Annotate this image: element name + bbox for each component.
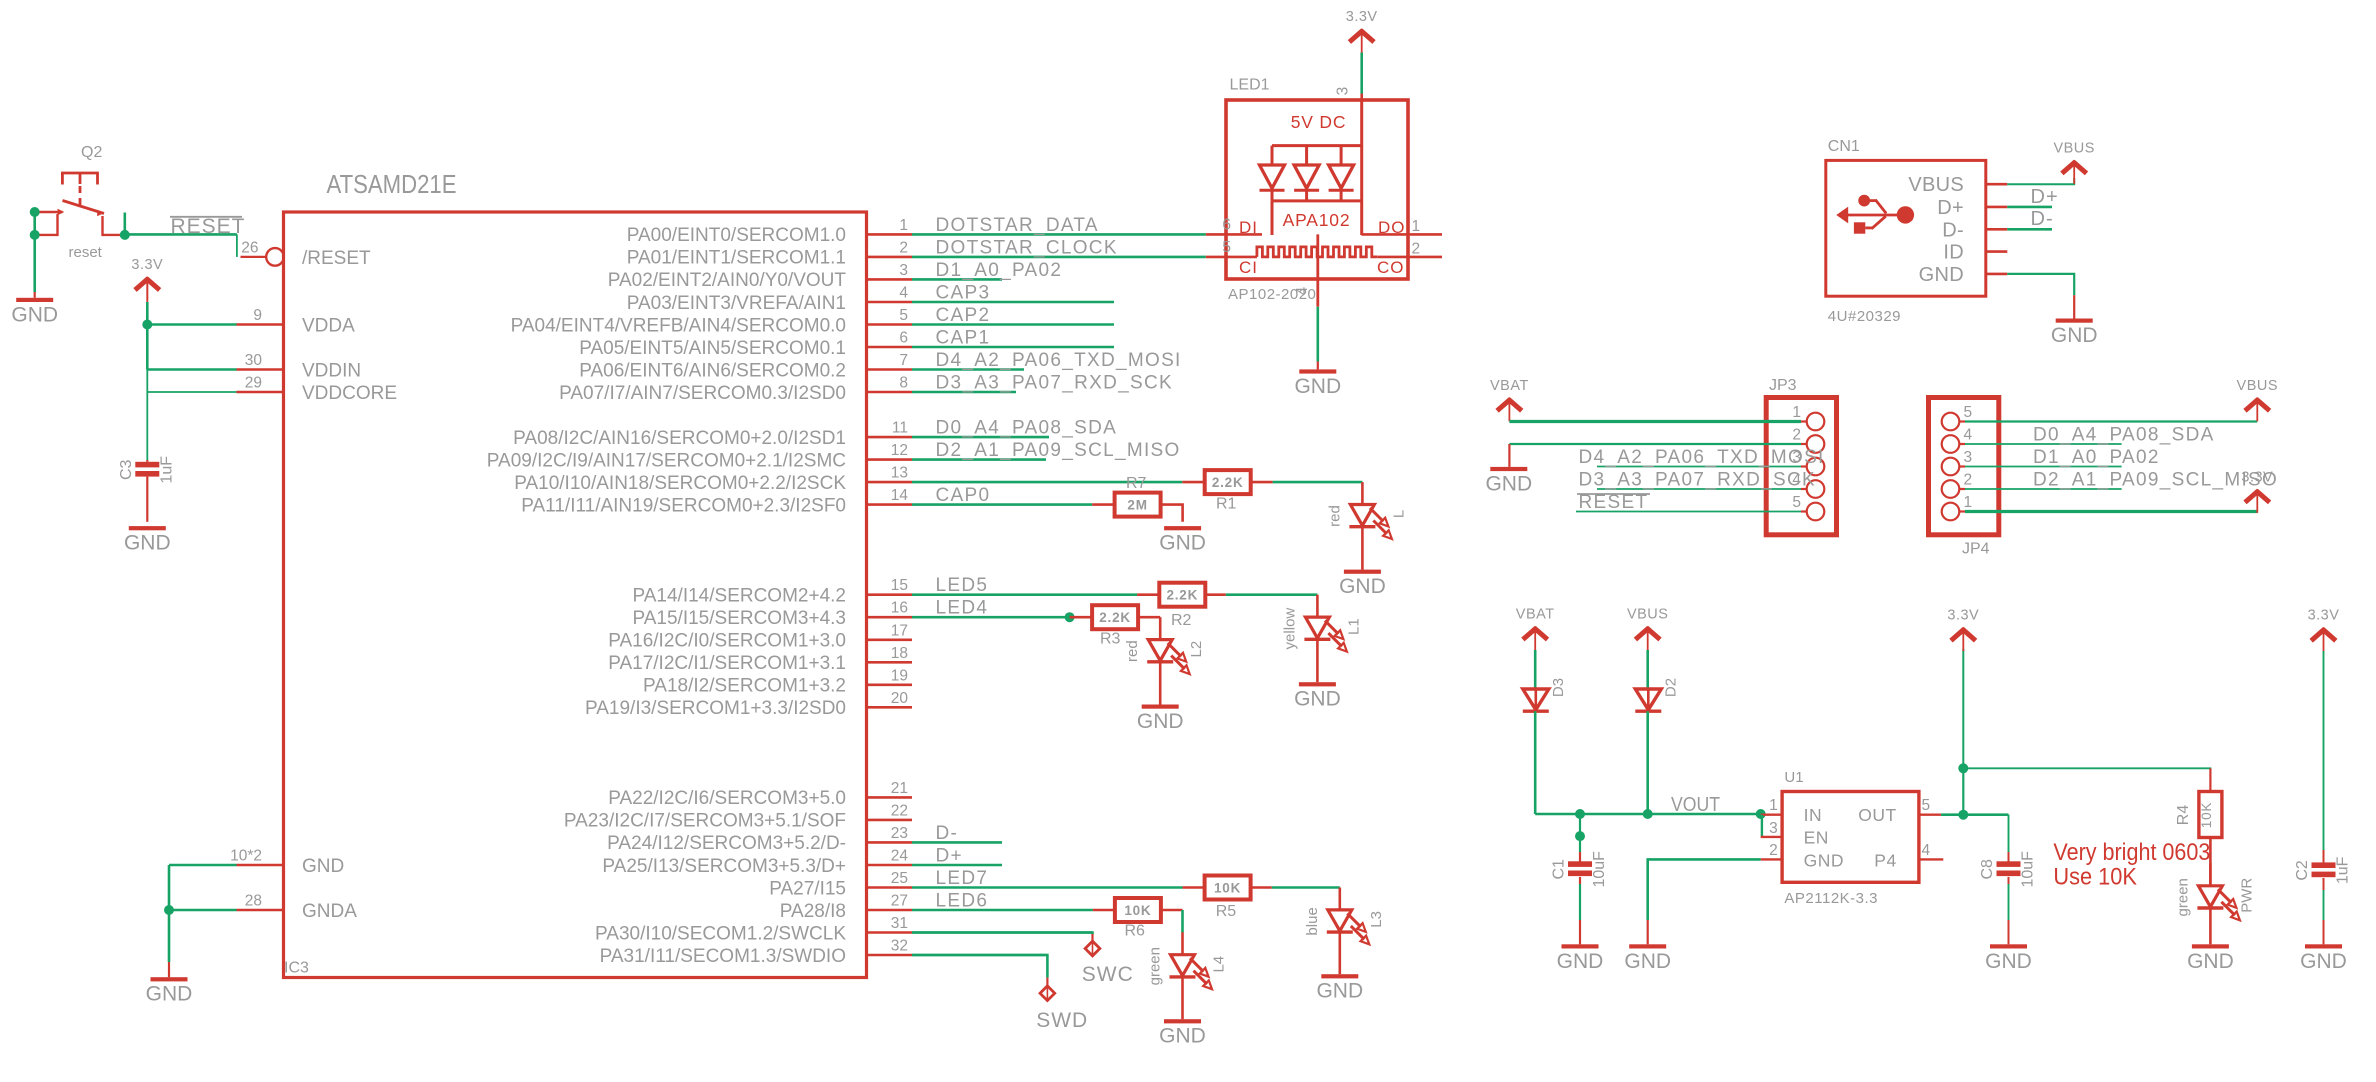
svg-text:10*2: 10*2	[230, 848, 262, 865]
svg-text:D0_A4_PA08_SDA: D0_A4_PA08_SDA	[2033, 425, 2215, 446]
junction dot C1	[1575, 831, 1585, 841]
wire VBUS to D2	[1646, 650, 1649, 689]
svg-text:D1_A0_PA02: D1_A0_PA02	[936, 260, 1063, 281]
wire IC3 GND pin	[169, 864, 237, 867]
svg-text:Use 10K: Use 10K	[2053, 864, 2137, 891]
svg-text:LED5: LED5	[936, 575, 989, 596]
svg-text:GND: GND	[1804, 850, 1844, 870]
svg-text:21: 21	[891, 780, 908, 797]
svg-text:red: red	[1124, 640, 1141, 662]
svg-text:GND: GND	[1624, 950, 1671, 973]
svg-text:CAP0: CAP0	[936, 485, 991, 506]
svg-text:VBAT: VBAT	[1490, 378, 1529, 394]
svg-text:C1: C1	[1551, 859, 1568, 880]
ground GND under PWR	[2187, 944, 2234, 973]
IC3 pin 25 (PA27/I15)	[769, 868, 1182, 899]
testpoint SWD diamond	[1040, 986, 1055, 1001]
resistor R5 10K	[1205, 876, 1251, 900]
svg-text:D0_A4_PA08_SDA: D0_A4_PA08_SDA	[936, 418, 1118, 439]
svg-text:GND: GND	[1159, 1025, 1206, 1048]
svg-text:6: 6	[899, 330, 908, 347]
IC3 pin 17 (PA16/I2C/I0/SERCOM1+3.0)	[608, 622, 912, 651]
LED L4 green	[1147, 932, 1228, 1019]
svg-text:19: 19	[891, 667, 908, 684]
IC3 pin 3 (PA02/EINT2/AIN0/Y0/VOUT)	[608, 260, 1063, 291]
svg-text:3.3V: 3.3V	[2241, 469, 2273, 485]
svg-text:1: 1	[1964, 494, 1973, 511]
wire 3.3V to LED1 pin3	[1360, 53, 1363, 94]
resistor R3 2.2K	[1092, 605, 1138, 629]
wire SWC	[912, 933, 1093, 935]
svg-text:PA22/I2C/I6/SERCOM3+5.0: PA22/I2C/I6/SERCOM3+5.0	[608, 788, 846, 809]
ground GND under LED L2	[1137, 705, 1184, 734]
svg-text:20: 20	[891, 690, 909, 707]
wire CN1 GND	[2007, 274, 2074, 295]
LED1 pin3 inner vertical	[1360, 100, 1363, 235]
svg-text:2M: 2M	[1127, 498, 1147, 513]
svg-text:11: 11	[892, 420, 908, 437]
LED1 internal diodes	[1260, 146, 1354, 201]
JP3 box	[1766, 398, 1836, 535]
wire JP3 pin4	[1597, 488, 1801, 490]
svg-text:GND: GND	[1316, 980, 1363, 1003]
wire JP4 pin4	[1965, 443, 2122, 445]
U1 pin4 stub	[1919, 858, 1943, 860]
wire R4 to PWR LED	[2209, 838, 2212, 886]
svg-text:P4: P4	[1874, 850, 1896, 870]
svg-text:green: green	[2174, 878, 2191, 916]
svg-text:CO: CO	[1377, 258, 1405, 277]
svg-text:VBUS: VBUS	[1627, 607, 1669, 623]
svg-text:yellow: yellow	[1281, 608, 1298, 650]
ground GND under C8	[1985, 944, 2032, 973]
junction dot Q2 right	[120, 230, 130, 240]
CN1 USB icon	[1836, 195, 1914, 234]
svg-text:1: 1	[1769, 797, 1778, 814]
svg-text:1: 1	[1792, 404, 1801, 421]
svg-text:1: 1	[899, 217, 908, 234]
IC3 pin 15 (PA14/I14/SERCOM2+4.2)	[632, 575, 1137, 606]
svg-text:13: 13	[891, 465, 908, 482]
JP4 box	[1929, 398, 1999, 535]
LED PWR green	[2174, 863, 2255, 944]
svg-text:PA14/I14/SERCOM2+4.2: PA14/I14/SERCOM2+4.2	[632, 586, 846, 607]
svg-text:DO: DO	[1378, 218, 1406, 237]
net label RESET at JP3	[1577, 492, 1650, 513]
svg-text:10uF: 10uF	[1591, 851, 1608, 888]
svg-text:12: 12	[891, 442, 908, 459]
svg-text:CI: CI	[1239, 258, 1258, 277]
svg-text:R3: R3	[1100, 631, 1121, 648]
svg-text:D4_A2_PA06_TXD_MOSI: D4_A2_PA06_TXD_MOSI	[1579, 447, 1825, 468]
svg-text:2.2K: 2.2K	[1166, 588, 1198, 603]
svg-text:VDDCORE: VDDCORE	[302, 383, 397, 404]
IC3 pin 24 (PA25/I13/SERCOM3+5.3/D+)	[602, 846, 1002, 877]
IC3 pin 4 (PA03/EINT3/VREFA/AIN1)	[627, 283, 1114, 314]
IC3 pin 13 (PA10/I10/AIN18/SERCOM0+2.2/I2SCK)	[514, 465, 1182, 494]
svg-text:25: 25	[891, 870, 908, 887]
wire R6 bend down	[1181, 910, 1184, 933]
LED L3 blue	[1304, 888, 1385, 975]
svg-text:LED4: LED4	[936, 598, 989, 619]
switch Q2 left contact	[35, 209, 65, 216]
LED1 box	[1226, 100, 1408, 279]
svg-text:5V DC: 5V DC	[1291, 112, 1347, 132]
svg-text:3: 3	[899, 262, 908, 279]
power 3.3V arrow above U1	[1947, 608, 1979, 652]
wire Q2 to GND	[33, 235, 36, 292]
svg-text:RESET: RESET	[171, 215, 246, 238]
svg-text:10K: 10K	[2199, 802, 2214, 828]
svg-text:PA24/I12/SERCOM3+5.2/D-: PA24/I12/SERCOM3+5.2/D-	[607, 833, 846, 854]
power VBUS arrow above CN1	[2053, 140, 2095, 184]
wire JP4 pin3	[1965, 466, 2122, 468]
wire JP4 pin1 3.3V	[1965, 510, 2257, 513]
wire U1 GND	[1648, 859, 1761, 920]
svg-text:L2: L2	[1188, 641, 1205, 658]
svg-text:red: red	[1326, 505, 1343, 527]
svg-text:GND: GND	[1919, 264, 1964, 286]
ground GND under LED1	[1294, 369, 1341, 398]
svg-text:PA03/EINT3/VREFA/AIN1: PA03/EINT3/VREFA/AIN1	[627, 293, 846, 314]
svg-text:DOTSTAR_CLOCK: DOTSTAR_CLOCK	[936, 237, 1118, 258]
svg-text:4U#20329: 4U#20329	[1828, 308, 1901, 325]
IC3 pin 29 VDDCORE	[237, 375, 398, 405]
svg-text:D1_A0_PA02: D1_A0_PA02	[2033, 447, 2160, 468]
IC3 pin 12 (PA09/I2C/I9/AIN17/SERCOM0+2.1/I2SMC)	[487, 440, 1181, 471]
wire LED1 pin4 to GND	[1317, 307, 1320, 362]
svg-text:29: 29	[245, 375, 262, 392]
switch Q2 right contact	[97, 210, 125, 235]
IC3 pin 23 (PA24/I12/SERCOM3+5.2/D-)	[607, 823, 1002, 854]
wire JP3 pin3	[1597, 466, 1801, 468]
ground GND under C1	[1557, 944, 1604, 973]
svg-text:PA08/I2C/AIN16/SERCOM0+2.0/I2S: PA08/I2C/AIN16/SERCOM0+2.0/I2SD1	[513, 428, 846, 449]
svg-text:CAP1: CAP1	[936, 328, 991, 349]
IC3 pin 31 (PA30/I10/SECOM1.2/SWCLK)	[595, 915, 1092, 944]
svg-text:EN: EN	[1804, 828, 1829, 848]
svg-text:2: 2	[1792, 427, 1801, 444]
svg-text:D2: D2	[1662, 678, 1679, 697]
resistor R2 2.2K	[1159, 583, 1205, 607]
svg-text:C8: C8	[1979, 859, 1996, 880]
svg-text:5: 5	[1964, 404, 1973, 421]
diode D2	[1635, 678, 1679, 711]
svg-text:15: 15	[891, 577, 908, 594]
svg-text:PA02/EINT2/AIN0/Y0/VOUT: PA02/EINT2/AIN0/Y0/VOUT	[608, 270, 847, 291]
IC3 pin 22 (PA23/I2C/I7/SERCOM3+5.1/SOF)	[564, 802, 912, 831]
svg-text:1uF: 1uF	[2335, 856, 2352, 884]
svg-text:3.3V: 3.3V	[131, 257, 163, 273]
svg-text:OUT: OUT	[1858, 805, 1896, 825]
wire JP4 pin5 VBUS	[1965, 420, 2257, 422]
svg-text:/RESET: /RESET	[302, 248, 371, 269]
CN1 ID stub	[1986, 250, 2008, 253]
svg-text:3: 3	[1964, 449, 1973, 466]
junction dot GNDA	[164, 905, 174, 915]
resistor R6 10K	[1115, 898, 1161, 922]
svg-text:D3_A3_PA07_RXD_SCK: D3_A3_PA07_RXD_SCK	[1579, 470, 1816, 491]
ground GND under C2	[2300, 944, 2347, 973]
svg-text:10K: 10K	[1124, 903, 1151, 918]
wire Q2 right vertical	[124, 213, 127, 235]
svg-text:ATSAMD21E: ATSAMD21E	[327, 169, 457, 199]
svg-text:ID: ID	[1943, 242, 1964, 264]
svg-text:PA18/I2/SERCOM1+3.2: PA18/I2/SERCOM1+3.2	[643, 676, 846, 697]
svg-text:PA09/I2C/I9/AIN17/SERCOM0+2.1/: PA09/I2C/I9/AIN17/SERCOM0+2.1/I2SMC	[487, 450, 846, 471]
U1 pin labels	[1804, 805, 1897, 870]
power VBUS arrow bottom	[1627, 607, 1669, 651]
wire R1 to LED L	[1273, 481, 1363, 484]
svg-text:D+: D+	[1937, 197, 1964, 219]
IC3 pin 6 (PA05/EINT5/AIN5/SERCOM0.1)	[579, 328, 1114, 359]
switch Q2 dashed stem	[79, 186, 82, 206]
IC3 pin 28 GNDA	[237, 893, 358, 923]
CN1 box	[1826, 160, 1986, 296]
svg-text:C2: C2	[2294, 860, 2311, 881]
svg-text:PA17/I2C/I1/SERCOM1+3.1: PA17/I2C/I1/SERCOM1+3.1	[608, 653, 846, 674]
wire JP3 pin5	[1576, 511, 1801, 513]
switch Q2 cap bracket	[62, 173, 97, 185]
IC3 pin 32 (PA31/I11/SECOM1.3/SWDIO)	[600, 938, 1048, 967]
wire R7 to GND	[1161, 505, 1183, 522]
svg-text:GND: GND	[1557, 950, 1604, 973]
U1 pin3 hook	[1761, 815, 1763, 837]
svg-text:GND: GND	[2300, 950, 2347, 973]
svg-text:1: 1	[1412, 218, 1421, 235]
svg-text:GND: GND	[1339, 575, 1386, 598]
svg-text:D-: D-	[1942, 219, 1964, 241]
IC3 pin 16 (PA15/I15/SERCOM3+4.3)	[632, 598, 1069, 629]
wire OUT up to 3.3V	[1962, 768, 1964, 814]
svg-text:27: 27	[891, 893, 908, 910]
wire VDDIN	[147, 368, 236, 371]
svg-text:DOTSTAR_DATA: DOTSTAR_DATA	[936, 215, 1099, 236]
svg-text:APA102: APA102	[1283, 210, 1351, 230]
svg-text:U1: U1	[1784, 769, 1803, 786]
power VBAT arrow at JP3	[1490, 378, 1529, 422]
svg-text:10K: 10K	[1214, 881, 1241, 896]
svg-text:3.3V: 3.3V	[2308, 608, 2340, 624]
LED1 DI pin line	[1206, 233, 1262, 236]
wire JP4 pin2	[1965, 488, 2122, 490]
U1 pin numbers	[1769, 797, 1930, 859]
IC3 pin 10*2 GND	[230, 848, 344, 878]
svg-text:green: green	[1147, 947, 1164, 985]
IC3 pin 2 (PA01/EINT1/SERCOM1.1)	[627, 237, 1206, 268]
svg-text:2: 2	[1769, 842, 1778, 859]
svg-text:2.2K: 2.2K	[1212, 475, 1244, 490]
ground GND under Q2	[11, 298, 58, 327]
wire R5 to LED L3	[1272, 886, 1340, 889]
svg-text:D3: D3	[1550, 678, 1567, 697]
ground GND under R7	[1159, 526, 1206, 555]
svg-text:7: 7	[899, 352, 908, 369]
regulator U1 box	[1782, 792, 1919, 883]
svg-text:GNDA: GNDA	[302, 901, 357, 922]
wire OUT to C8	[2008, 815, 2010, 852]
wire VDDA	[147, 323, 236, 326]
svg-text:IN: IN	[1804, 805, 1823, 825]
svg-text:AP2112K-3.3: AP2112K-3.3	[1784, 890, 1878, 907]
junction dot OUT	[1958, 810, 1968, 820]
power VBAT arrow bottom	[1516, 607, 1555, 651]
IC3 pin 20 (PA19/I3/SERCOM1+3.3/I2SD0)	[585, 690, 912, 719]
svg-text:R4: R4	[2175, 805, 2192, 826]
svg-text:L4: L4	[1211, 956, 1228, 973]
wire Q2 left pins	[33, 212, 36, 235]
IC3 pin 14 (PA11/I11/AIN19/SERCOM0+2.3/I2SF0)	[521, 485, 1092, 516]
IC3 pin 9 VDDA	[237, 307, 356, 337]
ground GND under C3	[124, 526, 171, 555]
resistor R4 10K vertical	[2199, 792, 2222, 838]
svg-text:14: 14	[891, 487, 909, 504]
svg-text:10uF: 10uF	[2020, 851, 2037, 888]
svg-text:LED1: LED1	[1230, 77, 1270, 94]
power 3.3V arrow left	[131, 257, 163, 301]
junction dot VDDA	[142, 320, 152, 330]
wire U1 OUT	[1941, 813, 2008, 816]
svg-text:R2: R2	[1171, 612, 1192, 629]
IC3 pin 8 (PA07/I7/AIN7/SERCOM0.3/I2SD0)	[559, 373, 1173, 404]
LED1 inner box sides	[1271, 201, 1274, 235]
svg-text:PA04/EINT4/VREFB/AIN4/SERCOM0.: PA04/EINT4/VREFB/AIN4/SERCOM0.0	[511, 315, 846, 336]
svg-text:6: 6	[1222, 217, 1231, 234]
svg-text:VBUS: VBUS	[2237, 378, 2279, 394]
svg-text:CAP2: CAP2	[936, 305, 991, 326]
wire C1 to GND	[1579, 877, 1581, 884]
wire D3 to rail	[1534, 711, 1537, 814]
svg-text:D+: D+	[2031, 186, 2059, 208]
ground GND under LED L3	[1316, 974, 1363, 1003]
svg-text:5: 5	[1792, 494, 1801, 511]
svg-text:GND: GND	[11, 303, 58, 326]
svg-text:30: 30	[245, 352, 263, 369]
switch Q2 arm	[63, 201, 105, 214]
LED L red	[1326, 482, 1407, 569]
svg-text:VBUS: VBUS	[1908, 174, 1964, 196]
svg-text:PA23/I2C/I7/SERCOM3+5.1/SOF: PA23/I2C/I7/SERCOM3+5.1/SOF	[564, 811, 846, 832]
svg-text:VBAT: VBAT	[1516, 607, 1555, 623]
svg-text:16: 16	[891, 600, 908, 617]
svg-text:GND: GND	[1485, 472, 1532, 495]
JP3 pins	[1792, 404, 1824, 520]
svg-text:LED6: LED6	[936, 891, 989, 912]
U1 pin2 stub	[1761, 858, 1782, 860]
svg-text:D4_A2_PA06_TXD_MOSI: D4_A2_PA06_TXD_MOSI	[936, 350, 1182, 371]
CN1 D- stub	[1986, 228, 2008, 231]
svg-text:18: 18	[891, 645, 908, 662]
svg-text:5: 5	[1922, 797, 1931, 814]
CN1 VBUS stub	[1986, 183, 2008, 186]
svg-text:VDDA: VDDA	[302, 316, 355, 337]
net label RESET with overline	[170, 215, 246, 238]
svg-text:blue: blue	[1304, 907, 1321, 935]
wire C2 to GND	[2323, 878, 2325, 890]
svg-text:AP102-2020: AP102-2020	[1228, 286, 1316, 303]
wire C8 to GND	[2008, 877, 2010, 884]
svg-text:5: 5	[899, 307, 908, 324]
power 3.3V arrow right	[2308, 608, 2340, 652]
LED1 anode rail	[1272, 144, 1362, 147]
IC3 pin 5 (PA04/EINT4/VREFB/AIN4/SERCOM0.0)	[511, 305, 1114, 336]
svg-text:C3: C3	[118, 459, 135, 480]
ground GND under LED L4	[1159, 1019, 1206, 1047]
svg-text:IC3: IC3	[284, 960, 309, 977]
wire R3 bend to LED L2	[1138, 616, 1160, 619]
LED1 clock squarewave	[1257, 247, 1377, 257]
svg-text:3: 3	[1769, 820, 1778, 837]
svg-text:PA27/I15: PA27/I15	[769, 878, 846, 899]
svg-text:L1: L1	[1345, 618, 1362, 635]
IC3 pin 27 (PA28/I8)	[780, 891, 1093, 922]
svg-text:1uF: 1uF	[158, 456, 175, 484]
svg-text:2: 2	[899, 239, 908, 256]
capacitor C2 1uF	[2312, 862, 2336, 868]
U1 pin5 stub	[1919, 814, 1941, 816]
LED1 CI pin line	[1206, 256, 1257, 259]
svg-text:PA15/I15/SERCOM3+4.3: PA15/I15/SERCOM3+4.3	[632, 608, 846, 629]
ground GND under LED L1	[1294, 682, 1341, 711]
svg-text:GND: GND	[1137, 710, 1184, 733]
power 3.3V arrow above LED1	[1346, 9, 1378, 53]
svg-text:D3_A3_PA07_RXD_SCK: D3_A3_PA07_RXD_SCK	[936, 373, 1173, 394]
wire 3.3V to C2	[2323, 651, 2325, 850]
svg-text:PA28/I8: PA28/I8	[780, 901, 846, 922]
svg-text:PA07/I7/AIN7/SERCOM0.3/I2SD0: PA07/I7/AIN7/SERCOM0.3/I2SD0	[559, 383, 846, 404]
svg-text:26: 26	[241, 239, 258, 256]
svg-text:23: 23	[891, 825, 908, 842]
svg-text:2: 2	[1964, 472, 1973, 489]
svg-text:SWD: SWD	[1036, 1009, 1088, 1032]
svg-text:PA11/I11/AIN19/SERCOM0+2.3/I2S: PA11/I11/AIN19/SERCOM0+2.3/I2SF0	[521, 495, 846, 516]
IC3 pin 18 (PA17/I2C/I1/SERCOM1+3.1)	[608, 645, 912, 674]
svg-text:VBUS: VBUS	[2053, 140, 2095, 156]
svg-text:GND: GND	[2187, 950, 2234, 973]
svg-text:9: 9	[253, 307, 262, 324]
svg-text:DI: DI	[1239, 218, 1258, 237]
svg-text:JP3: JP3	[1769, 377, 1797, 394]
power VBUS arrow at JP4	[2237, 378, 2279, 422]
svg-text:PA25/I13/SERCOM3+5.3/D+: PA25/I13/SERCOM3+5.3/D+	[602, 856, 846, 877]
IC3 pin 26 /RESET	[241, 239, 372, 269]
IC3 pin 30 VDDIN	[237, 352, 362, 382]
svg-text:2.2K: 2.2K	[1099, 610, 1131, 625]
svg-text:PA06/EINT6/AIN6/SERCOM0.2: PA06/EINT6/AIN6/SERCOM0.2	[579, 360, 846, 381]
svg-text:VOUT: VOUT	[1671, 794, 1720, 816]
wire D2 to rail	[1646, 711, 1649, 814]
wire 3.3V to R4	[1963, 768, 2210, 770]
capacitor C1 10uF	[1568, 861, 1592, 867]
wire CN1 VBUS	[2007, 178, 2074, 184]
ground GND under CN1	[2051, 319, 2098, 348]
svg-text:4: 4	[1922, 842, 1931, 859]
wire CN1 D-	[2007, 228, 2052, 231]
JP4 pins	[1942, 404, 1973, 520]
wire GNDA to ground	[168, 910, 171, 962]
svg-text:L: L	[1390, 510, 1407, 518]
testpoint SWC diamond	[1085, 941, 1100, 956]
svg-text:CAP3: CAP3	[936, 283, 991, 304]
wire VDDCORE	[147, 391, 236, 393]
junction dot rail U1	[1756, 809, 1766, 819]
wire rail to C1	[1579, 814, 1581, 852]
wire VOUT rail	[1535, 813, 1761, 816]
wire R2 to LED L1	[1226, 593, 1318, 596]
svg-text:PA19/I3/SERCOM1+3.3/I2SD0: PA19/I3/SERCOM1+3.3/I2SD0	[585, 698, 846, 719]
junction dot rail C1	[1575, 809, 1585, 819]
svg-text:GND: GND	[1294, 375, 1341, 398]
